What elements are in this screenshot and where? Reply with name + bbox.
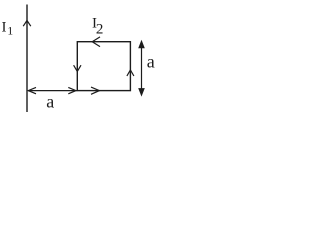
wire I1 (long straight vertical wire) <box>26 5 28 113</box>
dimension line a (right of loop, vertical double arrow) <box>141 43 143 93</box>
arrow right side (up) <box>127 70 134 76</box>
svg-text:I: I <box>2 20 7 36</box>
loop (square loop carrying I2) <box>77 42 130 91</box>
svg-text:2: 2 <box>96 22 104 38</box>
dimension line a (bottom, wire to loop) <box>28 90 77 92</box>
arrow top side (left) <box>92 37 100 47</box>
svg-text:1: 1 <box>7 24 13 38</box>
svg-text:a: a <box>147 51 155 71</box>
arrow bottom side (right) <box>91 87 99 94</box>
svg-text:a: a <box>46 92 54 112</box>
arrow left side (down) <box>74 65 81 71</box>
current arrow on wire (up) <box>23 21 31 27</box>
